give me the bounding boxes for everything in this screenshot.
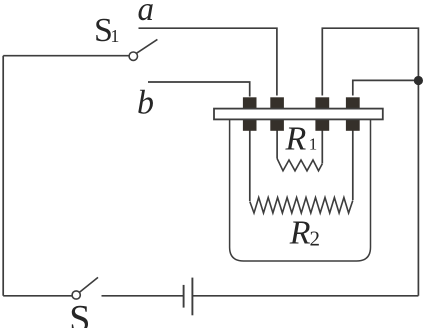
- wire terminal 4 lead into beaker: [352, 130, 354, 200]
- resistor R2: [250, 198, 353, 214]
- terminal 3: [315, 97, 329, 131]
- terminal 2: [270, 97, 284, 131]
- terminal plate: [214, 109, 383, 120]
- terminal 4: [346, 97, 360, 131]
- wire bottom from left corner to switch S: [3, 295, 72, 297]
- wire terminal 4 to right side junction: [353, 80, 419, 95]
- wire top-left horizontal to switch S1: [3, 55, 129, 57]
- wire left vertical: [2, 56, 4, 296]
- resistor R1: [277, 159, 322, 171]
- switch S1: [129, 39, 157, 60]
- svg-text:S1: S1: [94, 12, 119, 49]
- wire terminal 3 lead: [321, 130, 323, 164]
- wire terminal 3 up, across top right, down right side: [322, 28, 418, 296]
- junction node: [414, 76, 423, 85]
- terminal 1: [243, 97, 257, 131]
- svg-text:R1: R1: [285, 121, 318, 158]
- wire terminal 1 lead into beaker: [249, 130, 251, 201]
- svg-text:a: a: [138, 0, 155, 28]
- wire switch S to battery: [102, 295, 184, 297]
- wire node a to terminal 2: [139, 28, 277, 95]
- svg-text:b: b: [137, 84, 154, 121]
- wire node b to terminal 1: [148, 82, 250, 97]
- battery B1: [184, 278, 193, 316]
- wire battery to bottom right corner: [193, 295, 419, 297]
- beaker: [230, 120, 371, 261]
- svg-text:S: S: [69, 298, 90, 328]
- wire terminal 2 lead: [276, 130, 278, 159]
- switch S: [72, 277, 98, 299]
- svg-text:R2: R2: [289, 214, 320, 251]
